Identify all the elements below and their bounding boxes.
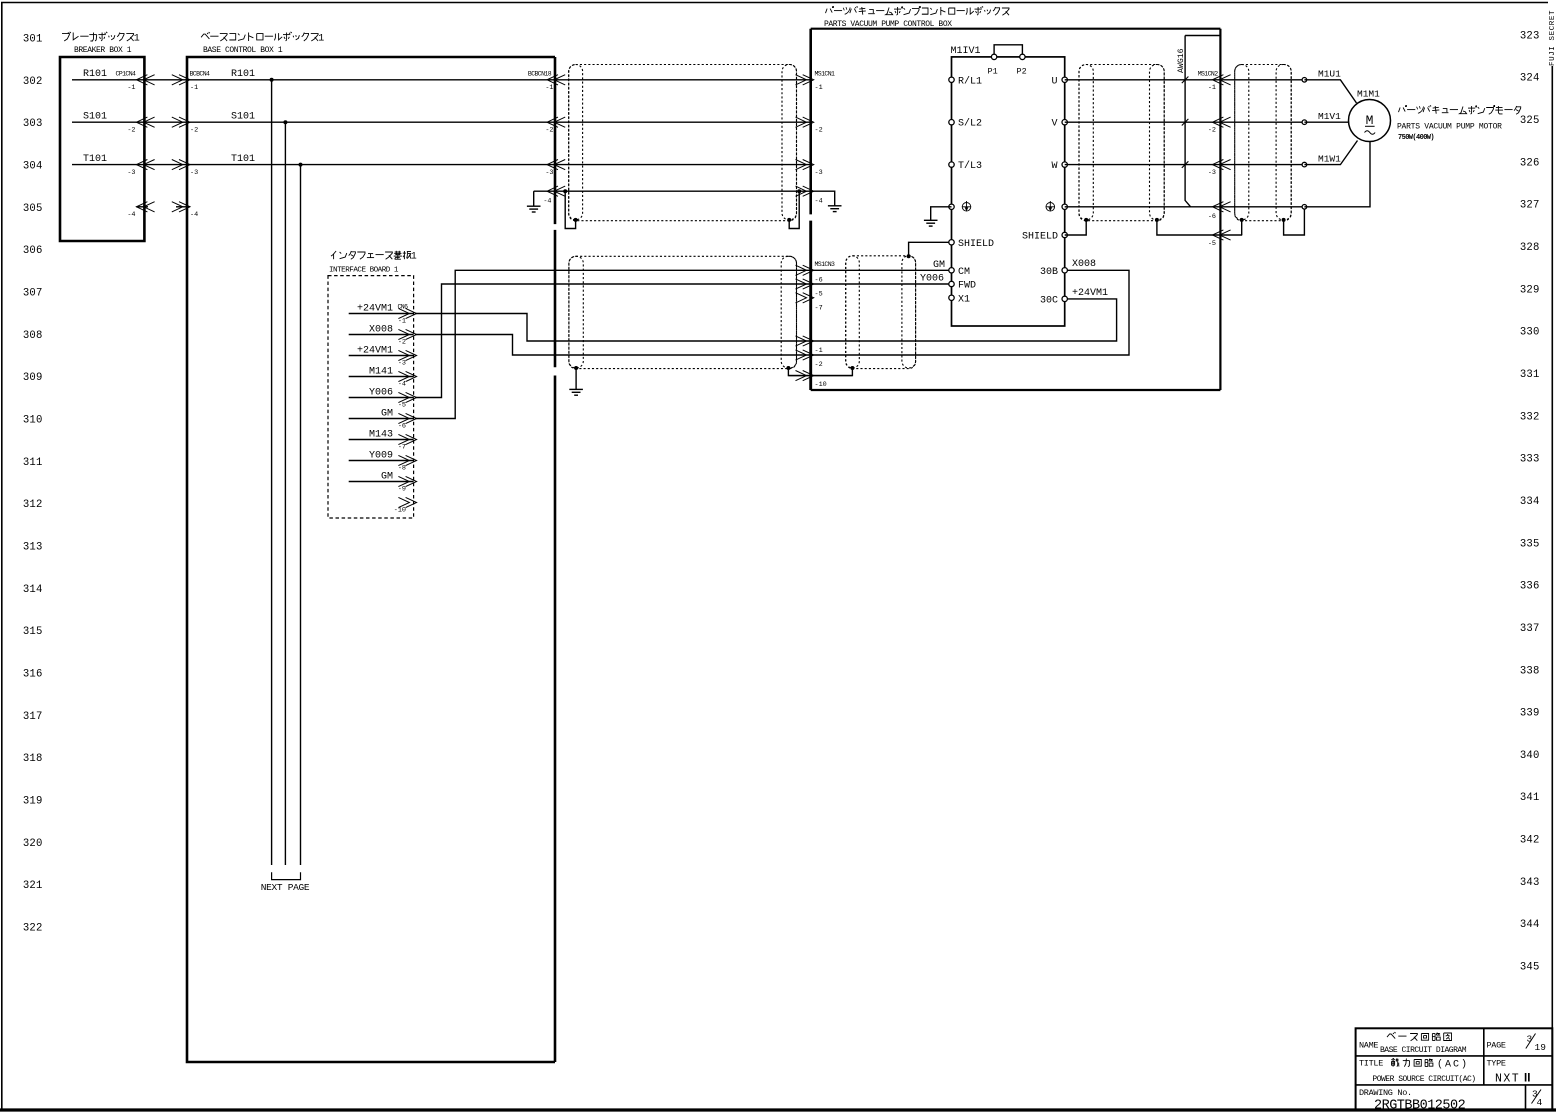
svg-text:-9: -9 [398,486,406,494]
title block divider lower [1525,1085,1527,1110]
connector BCBCN4-4 stub [176,206,190,208]
title block row line 2 [1356,1084,1553,1086]
svg-text:318: 318 [23,753,43,765]
svg-text:BASE CONTROL BOX 1: BASE CONTROL BOX 1 [203,46,283,55]
wire T101 (BCB) [187,164,555,166]
svg-text:MS1CN1: MS1CN1 [815,70,836,77]
svg-text:339: 339 [1520,708,1540,720]
svg-text:324: 324 [1520,73,1540,85]
wire MS1CN2-3 to M1W1 [1220,164,1304,166]
crossover AWG16 row 3 [1182,161,1189,168]
wire cable 1 left drain [565,191,575,228]
pump control box outline bottom [811,389,1221,391]
svg-text:-3: -3 [127,169,135,177]
page border right [1551,66,1553,1110]
svg-text:317: 317 [23,711,43,723]
svg-text:+24VM1: +24VM1 [357,345,393,356]
cable 5 right twist capsule [1276,65,1291,220]
svg-text:-3: -3 [1208,169,1216,177]
terminal X1 [949,295,954,300]
terminal M1U1 [1302,78,1307,83]
svg-text:-5: -5 [815,291,823,299]
svg-text:-3: -3 [398,360,406,368]
wire CN6-9 (GM) [349,481,414,483]
svg-text:T101: T101 [83,154,107,165]
svg-text:326: 326 [1520,157,1540,169]
connector MS1CN3-5 [796,279,807,289]
svg-text:-1: -1 [190,84,198,92]
svg-text:332: 332 [1520,411,1540,423]
connector BCBCN18-1 [547,75,558,85]
svg-text:NAME: NAME [1359,1041,1378,1051]
terminal motor PE [1302,205,1307,210]
cable 2 left twist capsule [569,256,583,368]
wire R101 interconnect [144,79,187,81]
connector MS1CN2-2 [1212,117,1223,127]
svg-text:322: 322 [23,922,43,934]
svg-text:-1: -1 [815,84,823,92]
connector CN6-7 [398,434,409,444]
wire CN6-3 (+24VM1) [349,355,414,357]
svg-text:+24VM1: +24VM1 [1072,288,1108,299]
node cable 4 left drain [1084,218,1088,222]
svg-text:-2: -2 [815,127,823,135]
connector MS1CN3-10 [796,371,807,381]
svg-text:SHIELD: SHIELD [1022,232,1058,243]
wire T101 to next page [300,165,302,865]
wire motor PE [1304,142,1370,207]
svg-text:M141: M141 [369,366,393,377]
svg-text:-2: -2 [545,127,553,135]
svg-text:M1M1: M1M1 [1357,89,1380,100]
svg-text:334: 334 [1520,496,1540,508]
connector MS1CN2-5 [1212,230,1223,240]
connector BCBCN4-1 [172,75,183,85]
wire X008 MS1CN3-2 to 30B [811,270,1129,355]
svg-text:M1U1: M1U1 [1318,69,1341,80]
svg-text:-1: -1 [127,84,135,92]
svg-text:337: 337 [1520,623,1540,635]
svg-text:-8: -8 [398,465,406,473]
breaker box 1 title (JP) [62,34,69,41]
svg-text:GM: GM [381,408,393,419]
connector CP1CN4-3 [136,160,147,170]
wire T101 interconnect [144,164,187,166]
svg-text:328: 328 [1520,242,1540,254]
connector BCBCN4-2 [172,117,183,127]
svg-text:-6: -6 [815,276,823,284]
svg-text:+24VM1: +24VM1 [357,303,393,314]
svg-text:BASE CIRCUIT DIAGRAM: BASE CIRCUIT DIAGRAM [1380,1046,1467,1055]
terminal R/L1 [949,77,954,82]
wire T101 BCB to MS1CN1-3 [555,164,811,166]
svg-text:331: 331 [1520,369,1540,381]
svg-text:T/L3: T/L3 [958,160,982,172]
doc name (JP) [1387,1034,1395,1039]
wire W to MS1CN2-3 [1065,164,1221,166]
wire CN6-5 (Y006) [349,397,414,399]
svg-text:BCBCN4: BCBCN4 [190,70,211,77]
connector CP1CN4-2 [136,117,147,127]
cable 1 left twist capsule [569,65,583,220]
cable 4 left twist capsule [1079,65,1093,220]
terminal V [1062,120,1067,125]
connector BCBCN18-4 [547,186,558,196]
svg-text:M1IV1: M1IV1 [951,46,981,57]
wire U to MS1CN2-1 [1065,79,1221,81]
connector CN6-5 [398,392,409,402]
svg-text:NXT: NXT [1495,1073,1520,1086]
svg-text:INTERFACE BOARD 1: INTERFACE BOARD 1 [329,267,399,275]
svg-text:-2: -2 [815,361,823,369]
ground (pump box PE) [828,205,842,207]
wire MS1CN2-6 to motor PE [1220,206,1304,208]
node cable 2 left drain [574,366,578,370]
svg-text:-1: -1 [398,318,406,326]
inverter M1IV1 outline [952,57,1065,326]
wire M1W1 to motor [1304,141,1357,165]
wire CN6-6 (GM) [349,418,414,420]
svg-text:M1W1: M1W1 [1318,153,1341,164]
svg-text:338: 338 [1520,665,1540,677]
wire CN6-1 (+24VM1) [349,313,414,315]
title block row line 1 [1356,1055,1553,1057]
svg-text:316: 316 [23,668,43,680]
interface board outline [328,276,414,518]
node T101 tap [299,163,303,167]
terminal P2 [1020,54,1025,59]
svg-text:315: 315 [23,626,43,638]
cable 2 shield outline [569,256,797,368]
svg-text:327: 327 [1520,200,1540,212]
svg-text:PARTS VACUUM PUMP CONTROL BOX: PARTS VACUUM PUMP CONTROL BOX [824,20,952,29]
wire AWG16 [1185,36,1191,207]
svg-text:-7: -7 [815,304,823,312]
terminal CM [949,268,954,273]
svg-text:-1: -1 [545,84,553,92]
terminal M1W1 [1302,162,1307,167]
wire Y006 to FWD [811,283,952,285]
svg-text:305: 305 [23,203,43,215]
svg-text:P1: P1 [988,67,998,77]
connector CN6-6 [398,413,409,423]
ground (BCB PE) [527,205,541,207]
terminal PE right [1062,204,1067,209]
pump control box left edge seg1 [809,29,812,215]
wire S101 to next page [284,122,286,865]
ground (inverter PE) [924,219,938,221]
wire cable 1 right drain [789,191,799,228]
svg-text:X1: X1 [958,294,970,305]
svg-text:CN6: CN6 [398,304,409,311]
svg-text:BREAKER BOX 1: BREAKER BOX 1 [74,46,132,55]
pump control box outline top [811,28,1221,30]
pump control box title (JP) [826,9,828,14]
pump control box left edge seg2 [809,221,812,390]
cable 5 shield outline [1235,65,1292,221]
terminal P1 [991,54,996,59]
svg-text:FUJI SECRET: FUJI SECRET [1549,10,1556,66]
svg-text:307: 307 [23,287,43,299]
svg-text:308: 308 [23,330,43,342]
connector MS1CN3-1 [796,336,807,346]
wire SHIELD to cable 4 left drain [1065,220,1087,235]
connector CN6-9 [398,476,409,486]
svg-text:-1: -1 [815,347,823,355]
wire cable 3 drain to SHIELD [909,242,952,256]
node cable 1 drain tap left [563,189,567,193]
svg-text:343: 343 [1520,877,1540,889]
terminal M1V1 [1302,120,1307,125]
terminal PE left [949,204,954,209]
svg-text:MS1CN2: MS1CN2 [1198,70,1219,77]
wire shield pair -4 [555,190,811,192]
node cable 5 right drain [1282,218,1286,222]
wire cable 2 right drain to MS1CN3-10 [788,368,810,376]
svg-text:MS1CN3: MS1CN3 [815,261,836,268]
svg-text:GM: GM [381,471,393,482]
wire cable 5 right drain to PE terminal [1284,209,1305,235]
svg-text:325: 325 [1520,115,1540,127]
wire BCBCN18-4 to ground [534,190,555,192]
connector CN6-3 [398,350,409,360]
svg-text:R/L1: R/L1 [958,75,982,87]
svg-text:303: 303 [23,118,43,130]
interface board 1 title (JP) [331,251,336,256]
svg-text:NEXT PAGE: NEXT PAGE [261,882,310,893]
svg-text:U: U [1051,76,1057,87]
terminal W [1062,162,1067,167]
svg-text:T101: T101 [231,154,255,165]
svg-text:S/L2: S/L2 [958,118,982,130]
svg-text:309: 309 [23,372,43,384]
wire R101 BCB to MS1CN1-1 [555,79,811,81]
svg-text:W: W [1051,161,1057,172]
base control box right edge seg1 [554,57,557,224]
svg-text:TITLE: TITLE [1359,1059,1383,1069]
svg-text:-10: -10 [394,507,406,515]
connector CN6-10 [398,497,409,507]
cable 1 right twist capsule [782,65,797,220]
svg-text:-5: -5 [1208,240,1216,248]
svg-text:-3: -3 [190,169,198,177]
svg-text:321: 321 [23,880,43,892]
svg-text:-7: -7 [398,444,406,452]
svg-text:CP1CN4: CP1CN4 [116,70,137,77]
wire V to MS1CN2-2 [1065,121,1221,123]
node cable 1 right drain [787,218,791,222]
base control box right edge seg2 [554,230,557,367]
svg-text:4: 4 [1537,1097,1543,1108]
svg-text:S101: S101 [83,112,107,123]
svg-text:P2: P2 [1017,67,1027,77]
connector CN6-1 [398,308,409,318]
wire R101 to next page [271,80,273,865]
svg-text:330: 330 [1520,327,1540,339]
terminal S/L2 [949,120,954,125]
svg-text:341: 341 [1520,792,1540,804]
svg-text:M: M [1366,113,1374,128]
connector MS1CN1-1 [796,75,807,85]
svg-text:-4: -4 [190,211,198,219]
svg-text:TYPE: TYPE [1487,1059,1506,1069]
wire X008 CN6-2 to MS1CN3-2 [415,335,811,356]
base control box right edge seg3 [554,376,557,1063]
PE symbol left [962,201,971,211]
svg-text:1: 1 [411,251,417,262]
title block divider upper [1483,1028,1485,1085]
svg-text:306: 306 [23,245,43,257]
connector MS1CN3-6 [796,265,807,275]
connector BCBCN4-3 [172,160,183,170]
wire S101 (breaker) [72,121,144,123]
svg-text:AWG16: AWG16 [1177,48,1186,73]
pump control box outline right [1219,29,1221,390]
svg-text:Y006: Y006 [920,274,944,285]
svg-text:313: 313 [23,541,43,553]
svg-text:304: 304 [23,160,43,172]
svg-text:-4: -4 [815,198,823,206]
svg-text:-4: -4 [398,381,406,389]
terminal T/L3 [949,162,954,167]
svg-text:311: 311 [23,457,43,469]
connector MS1CN3-2 [796,350,807,360]
svg-text:-5: -5 [398,402,406,410]
next page bracket [272,872,301,879]
svg-text:-1: -1 [1208,84,1216,92]
node cable 1 drain tap right [797,189,801,193]
svg-text:310: 310 [23,414,43,426]
wire CN6-8 (Y009) [349,460,414,462]
cable 1 shield outline [569,65,797,221]
jumper P1-P2 [994,45,1022,54]
svg-text:-6: -6 [398,423,406,431]
wire PE to MS1CN2-6 [1065,206,1221,208]
pump motor label (JP) [1399,108,1401,113]
svg-text:323: 323 [1520,30,1540,42]
svg-text:-3: -3 [815,169,823,177]
terminal SHIELD left [949,240,954,245]
connector MS1CN2-3 [1212,160,1223,170]
svg-text:PAGE: PAGE [1487,1041,1506,1051]
ground (cable 2 shield) [569,388,583,390]
svg-text:-2: -2 [398,339,406,347]
svg-text:-6: -6 [1208,213,1216,221]
wire S101 BCB to MS1CN1-2 [555,121,811,123]
svg-text:(AC): (AC) [1437,1059,1469,1071]
connector MS1CN3-7 stub [796,293,807,303]
svg-text:S101: S101 [231,112,255,123]
svg-text:344: 344 [1520,919,1540,931]
cable 2 right twist capsule [781,256,796,368]
title block outline [1356,1028,1553,1110]
svg-text:2RGTBB012502: 2RGTBB012502 [1374,1099,1466,1114]
terminal FWD [949,281,954,286]
svg-text:GM: GM [933,260,945,271]
connector BCBCN18-2 [547,117,558,127]
svg-text:M1V1: M1V1 [1318,111,1341,122]
svg-text:342: 342 [1520,835,1540,847]
cable 5 left twist capsule [1235,65,1249,220]
svg-text:SHIELD: SHIELD [958,239,994,250]
node cable 1 left drain [574,218,578,222]
PE symbol right [1046,201,1055,211]
node R101 tap [270,78,274,82]
svg-text:30C: 30C [1040,295,1058,306]
svg-text:PARTS VACUUM PUMP MOTOR: PARTS VACUUM PUMP MOTOR [1397,123,1502,132]
svg-text:BCBCN18: BCBCN18 [528,70,552,77]
connector BCBCN18-3 [547,160,558,170]
svg-text:-2: -2 [127,127,135,135]
svg-text:R101: R101 [231,69,255,80]
svg-text:X008: X008 [1072,259,1096,270]
svg-text:Y006: Y006 [369,387,393,398]
wire +24VM1 MS1CN3-1 to 30C [811,299,1117,341]
connector CN6-4 [398,371,409,381]
svg-text:-2: -2 [190,127,198,135]
terminal 30C [1062,296,1067,301]
wire S101 (BCB) [187,121,555,123]
node cable 2 right drain [786,366,790,370]
svg-text:1: 1 [318,33,324,44]
svg-text:II: II [1524,1073,1530,1085]
node cable 3 top drain [907,254,911,258]
cable 3 right twist capsule [902,256,916,368]
wire M1U1 to motor [1304,80,1356,103]
svg-text:333: 333 [1520,454,1540,466]
base control box 1 title (JP) [201,34,209,39]
wire CN6-7 (M143) [349,439,414,441]
cable 3 shield outline [846,256,916,369]
svg-text:320: 320 [23,838,43,850]
cable 4 right twist capsule [1150,65,1165,220]
connector MS1CN2-1 [1212,75,1223,85]
svg-text:-4: -4 [127,211,135,219]
wire cable 4 right drain to MS1CN2-5 [1157,220,1242,235]
svg-text:340: 340 [1520,750,1540,762]
wire MS1CN2-2 to M1V1 [1220,121,1304,123]
wire cable 5 left drain to MS1CN2-5 [1241,220,1243,235]
svg-text:V: V [1051,119,1057,130]
wire R101 (breaker) [72,79,144,81]
wire MS1CN2-1 to M1U1 [1220,79,1304,81]
svg-text:750W(400W): 750W(400W) [1398,134,1434,142]
wire CN6-2 (X008) [349,334,414,336]
wire cable 3 left drain to MS1CN3-10 [811,368,853,376]
terminal U [1062,77,1067,82]
connector CP1CN4-4 stub [136,206,148,208]
crossover AWG16 row 2 [1182,119,1189,126]
svg-text:336: 336 [1520,581,1540,593]
wire PE left to ground [931,207,952,221]
connector MS1CN1-3 [796,160,807,170]
crossover AWG16 row 1 [1182,77,1189,84]
connector MS1CN1-4 [796,186,807,196]
svg-text:CM: CM [958,267,970,278]
connector MS1CN1-2 [796,117,807,127]
wire MS1CN3-10 bus [788,375,852,377]
wire MS1CN1-4 to ground [811,191,835,206]
svg-text:FWD: FWD [958,281,976,292]
svg-text:M143: M143 [369,429,393,440]
svg-text:314: 314 [23,584,43,596]
svg-text:312: 312 [23,499,43,511]
svg-text:POWER SOURCE CIRCUIT(AC): POWER SOURCE CIRCUIT(AC) [1372,1075,1475,1084]
terminal SHIELD right [1062,232,1067,237]
svg-text:-2: -2 [1208,127,1216,135]
svg-text:335: 335 [1520,538,1540,550]
svg-text:19: 19 [1535,1042,1547,1053]
